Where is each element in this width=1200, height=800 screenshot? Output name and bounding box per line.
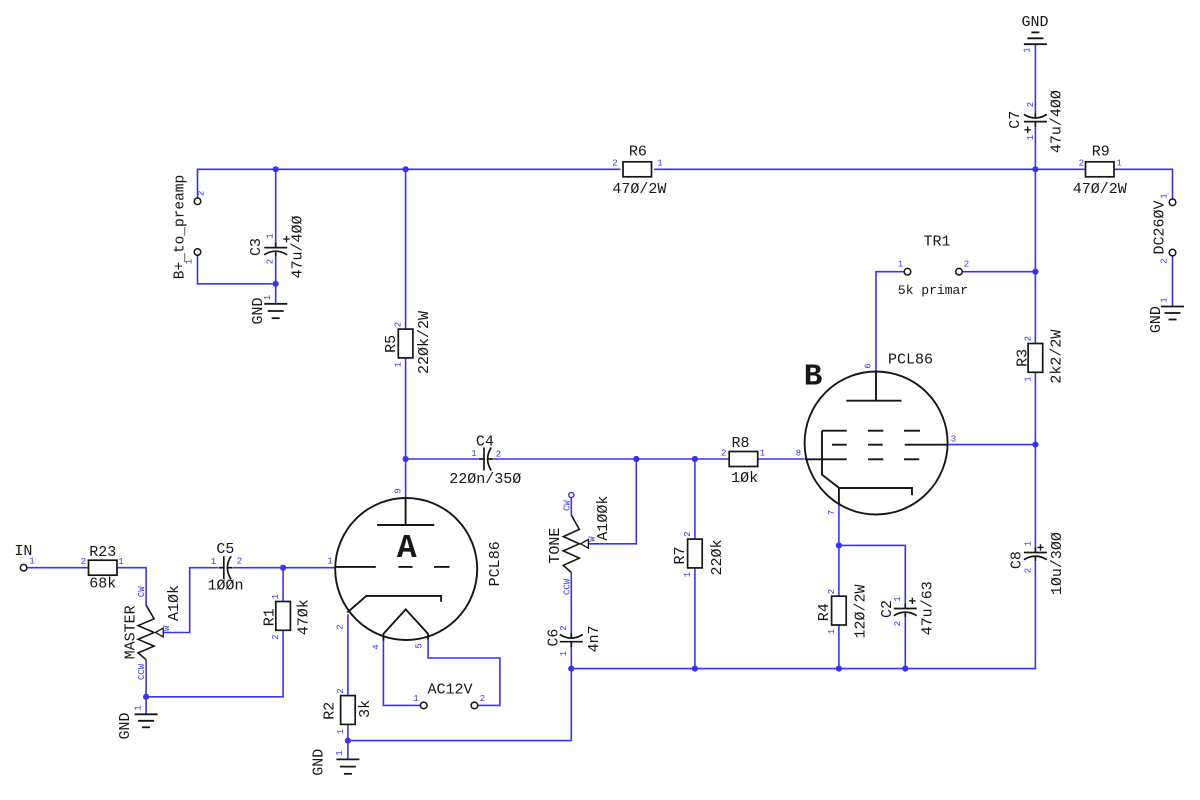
wire GND node down xyxy=(145,697,147,715)
capacitor C6 4n7 xyxy=(560,641,583,643)
svg-text:2: 2 xyxy=(336,688,346,693)
wire GND to C7 xyxy=(1034,44,1036,113)
resistor R7 220k xyxy=(688,539,703,568)
svg-text:1: 1 xyxy=(413,694,418,704)
svg-text:C4: C4 xyxy=(476,434,494,451)
tube B grid 1 control xyxy=(805,458,847,460)
resistor R2 3k xyxy=(341,696,356,725)
tube A plate xyxy=(377,524,434,526)
svg-text:2: 2 xyxy=(81,557,86,567)
svg-text:C8: C8 xyxy=(1009,551,1026,569)
wire TONE wiper to C4 node xyxy=(587,459,636,544)
svg-text:A1Øk: A1Øk xyxy=(166,585,183,621)
capacitor C4 220n/350 xyxy=(483,448,485,471)
capacitor C3 47u/400 polarized xyxy=(264,247,287,249)
svg-text:2: 2 xyxy=(612,159,617,169)
tube A grid xyxy=(335,566,376,568)
junction TONE wiper node xyxy=(633,456,639,462)
svg-text:C7: C7 xyxy=(1007,111,1024,129)
connector B+_to_preamp pin 2 xyxy=(194,198,201,205)
connector B+_to_preamp pin 1 xyxy=(194,249,201,256)
svg-text:2: 2 xyxy=(1023,568,1033,573)
tube A cathode xyxy=(347,596,441,613)
svg-text:4n7: 4n7 xyxy=(586,625,603,652)
svg-text:CW: CW xyxy=(137,586,147,597)
junction R7 R8 node xyxy=(692,456,698,462)
wire DC260V pin2 to GND xyxy=(1172,256,1174,307)
potentiometer MASTER A10k xyxy=(138,605,154,660)
connector IN pin 1 xyxy=(20,564,27,571)
svg-text:2: 2 xyxy=(394,322,404,327)
svg-text:GND: GND xyxy=(250,297,267,324)
wire C8 to bottom bus corner xyxy=(571,561,1035,668)
svg-text:1: 1 xyxy=(336,729,346,734)
svg-text:22Øk: 22Øk xyxy=(709,539,726,575)
svg-text:1: 1 xyxy=(335,750,345,755)
svg-text:TR1: TR1 xyxy=(923,234,950,251)
svg-text:1: 1 xyxy=(1023,541,1033,546)
ground GND under MASTER xyxy=(135,713,158,715)
svg-text:3: 3 xyxy=(951,435,956,445)
svg-text:1: 1 xyxy=(1026,135,1036,140)
svg-text:CCW: CCW xyxy=(563,578,573,595)
svg-text:W: W xyxy=(587,536,597,542)
wire R4 bottom xyxy=(838,625,840,669)
junction R4 bottom bus xyxy=(836,666,842,672)
tube B grid 3 xyxy=(822,430,847,432)
svg-text:DC26ØV: DC26ØV xyxy=(1152,200,1169,254)
wire R1 bottom to MASTER gnd node xyxy=(146,630,283,697)
svg-text:1: 1 xyxy=(1160,297,1170,302)
ground GND under DC260V xyxy=(1161,306,1184,308)
capacitor C2 47u/63 polarized xyxy=(894,608,917,610)
svg-text:W: W xyxy=(162,625,172,631)
resistor R6 470/2W xyxy=(623,162,652,177)
junction C2 bottom bus xyxy=(902,666,908,672)
wire R5 top xyxy=(405,169,407,329)
svg-text:R3: R3 xyxy=(1015,349,1032,367)
svg-text:47Ø/2W: 47Ø/2W xyxy=(612,181,666,198)
svg-text:1Øu/3ØØ: 1Øu/3ØØ xyxy=(1049,532,1066,595)
svg-text:1: 1 xyxy=(263,295,273,300)
transformer TR1 pin 1 xyxy=(904,268,911,275)
junction MASTER gnd node xyxy=(143,694,149,700)
ground GND under C3 xyxy=(264,303,287,305)
svg-text:2: 2 xyxy=(1023,336,1033,341)
wire R2 bottom xyxy=(347,724,349,740)
svg-text:1: 1 xyxy=(683,572,693,577)
svg-text:1: 1 xyxy=(118,557,123,567)
resistor R1 470k xyxy=(276,602,291,631)
svg-text:R2: R2 xyxy=(322,702,339,720)
wire C3 junction to GND xyxy=(275,284,277,304)
svg-text:1: 1 xyxy=(394,362,404,367)
svg-text:1: 1 xyxy=(827,629,837,634)
wire R3 to pin3 node xyxy=(1034,372,1036,444)
junction tube B pin7 node xyxy=(836,542,842,548)
wire TR1 pin2 to bus xyxy=(962,271,1035,273)
wire B+ pin1 to C3 bottom xyxy=(198,255,276,283)
junction C7 top bus xyxy=(1032,166,1038,172)
resistor R8 10k xyxy=(729,452,758,467)
svg-text:R23: R23 xyxy=(89,544,116,561)
wire C4 right to R8 xyxy=(493,458,729,460)
wire C7 to top bus xyxy=(1034,127,1036,170)
junction C3 bottom xyxy=(273,281,279,287)
wire IN to R23 xyxy=(27,567,89,569)
svg-text:AC12V: AC12V xyxy=(427,682,472,699)
svg-text:47u/4ØØ: 47u/4ØØ xyxy=(1049,90,1066,153)
wire C3 top xyxy=(275,169,277,242)
svg-text:GND: GND xyxy=(1021,14,1048,31)
wire top bus left segment xyxy=(198,169,621,198)
svg-text:IN: IN xyxy=(14,543,32,560)
resistor R4 120/2W xyxy=(832,596,847,625)
connector DC260V pin 2 xyxy=(1169,249,1176,256)
svg-text:2: 2 xyxy=(496,450,501,460)
connector DC260V pin 1 xyxy=(1169,199,1176,206)
svg-text:1: 1 xyxy=(559,651,569,656)
junction tube B pin3 bus xyxy=(1032,442,1038,448)
svg-text:2: 2 xyxy=(964,260,969,270)
svg-text:1: 1 xyxy=(271,594,281,599)
svg-text:C5: C5 xyxy=(216,541,234,558)
svg-text:1Øk: 1Øk xyxy=(731,470,758,487)
wire TONE bottom to C6 xyxy=(570,573,572,634)
wire tube A pin5 to AC12V pin2 xyxy=(428,640,500,706)
wire R9 left xyxy=(1035,168,1086,170)
wire tube B pin7 down xyxy=(838,504,840,545)
svg-text:2: 2 xyxy=(271,634,281,639)
resistor R23 68k xyxy=(89,560,118,575)
svg-text:R8: R8 xyxy=(731,435,749,452)
svg-text:2: 2 xyxy=(721,449,726,459)
svg-text:47u/4ØØ: 47u/4ØØ xyxy=(290,215,307,278)
tube B grid 2 screen xyxy=(832,444,847,446)
svg-text:2: 2 xyxy=(1079,159,1084,169)
connector AC12V pin 1 xyxy=(420,702,427,709)
svg-text:R7: R7 xyxy=(672,546,689,564)
svg-text:1: 1 xyxy=(327,557,332,567)
svg-text:2: 2 xyxy=(237,557,242,567)
capacitor C7 47u/400 polarized xyxy=(1024,121,1047,123)
svg-text:2: 2 xyxy=(336,624,346,629)
connector AC12V pin 2 xyxy=(471,702,478,709)
svg-text:R4: R4 xyxy=(816,603,833,621)
svg-text:47Ø/2W: 47Ø/2W xyxy=(1073,181,1127,198)
svg-text:5k primar: 5k primar xyxy=(898,283,968,298)
wire pin3 node to C8 xyxy=(1034,445,1036,548)
svg-text:12Ø/2W: 12Ø/2W xyxy=(853,584,870,638)
wire R7 bottom xyxy=(694,568,696,669)
wire R2 gnd xyxy=(347,741,349,760)
svg-text:PCL86: PCL86 xyxy=(888,352,933,369)
wire R4 top xyxy=(838,545,840,596)
junction TR1 bus xyxy=(1032,269,1038,275)
wire C5 to tube A pin1 xyxy=(233,567,335,569)
svg-text:R5: R5 xyxy=(383,335,400,353)
wire R8 to tube B pin 8 xyxy=(758,458,805,460)
svg-text:68k: 68k xyxy=(89,576,116,593)
svg-text:1: 1 xyxy=(211,557,216,567)
svg-text:GND: GND xyxy=(311,749,328,776)
tube B cathode pin lead xyxy=(838,488,840,504)
junction R2 gnd node xyxy=(345,738,351,744)
wire TONE top xyxy=(570,498,572,516)
svg-text:CCW: CCW xyxy=(137,663,147,680)
svg-text:1: 1 xyxy=(898,260,903,270)
svg-text:8: 8 xyxy=(796,449,801,459)
potentiometer TONE A100k xyxy=(569,492,574,497)
svg-text:22Øk/2W: 22Øk/2W xyxy=(416,311,433,374)
svg-text:R9: R9 xyxy=(1092,144,1110,161)
wire bus C7node to TR1 node to R3 xyxy=(1034,169,1036,343)
svg-text:2: 2 xyxy=(266,259,276,264)
wire R1 top xyxy=(282,568,284,602)
svg-text:1ØØn: 1ØØn xyxy=(207,578,243,595)
svg-text:2: 2 xyxy=(827,589,837,594)
svg-text:R6: R6 xyxy=(629,144,647,161)
wire TR1 pin1 to tube B pin6 xyxy=(876,272,904,372)
svg-text:22Øn/35Ø: 22Øn/35Ø xyxy=(449,471,521,488)
svg-text:1: 1 xyxy=(1023,47,1033,52)
svg-text:1: 1 xyxy=(893,596,903,601)
svg-text:9: 9 xyxy=(393,488,403,493)
svg-text:1: 1 xyxy=(1160,193,1170,198)
svg-text:5: 5 xyxy=(414,643,424,648)
junction C6 bottom bus xyxy=(568,666,574,672)
svg-text:GND: GND xyxy=(1148,306,1165,333)
svg-text:GND: GND xyxy=(117,712,134,739)
svg-text:47u/63: 47u/63 xyxy=(920,581,937,635)
svg-text:2: 2 xyxy=(1160,258,1170,263)
svg-text:4: 4 xyxy=(371,644,381,649)
junction C4 R5 node xyxy=(403,456,409,462)
resistor R5 220k/2W xyxy=(398,329,413,358)
svg-text:MASTER: MASTER xyxy=(123,605,140,659)
svg-text:1: 1 xyxy=(471,449,476,459)
svg-text:1: 1 xyxy=(657,159,662,169)
svg-text:A1ØØk: A1ØØk xyxy=(595,496,612,541)
svg-text:PCL86: PCL86 xyxy=(487,541,504,586)
wire MASTER wiper to C5 xyxy=(162,568,218,633)
resistor R9 470/2W xyxy=(1086,162,1115,177)
wire R5 bottom to C4 node xyxy=(405,358,407,459)
wire C2 bottom xyxy=(904,617,906,668)
tube B cathode xyxy=(822,431,912,496)
svg-text:B+_to_preamp: B+_to_preamp xyxy=(173,175,189,279)
svg-text:2: 2 xyxy=(559,625,569,630)
wire tube B pin3 xyxy=(948,444,1036,446)
svg-text:TONE: TONE xyxy=(547,528,564,564)
svg-text:6: 6 xyxy=(864,363,874,368)
wire C6 bottom to bus xyxy=(570,647,572,669)
capacitor C8 10u/300 polarized xyxy=(1024,552,1047,554)
svg-text:2: 2 xyxy=(197,191,207,196)
svg-text:1: 1 xyxy=(1023,376,1033,381)
wire tube A pin2 to R2 xyxy=(347,614,349,695)
junction R5 top bus xyxy=(403,166,409,172)
tube A PCL86 triode envelope xyxy=(335,498,477,640)
svg-text:1: 1 xyxy=(266,233,276,238)
svg-text:2: 2 xyxy=(893,621,903,626)
junction R7 bottom bus xyxy=(692,666,698,672)
wire R7 top xyxy=(694,459,696,539)
svg-text:2: 2 xyxy=(1026,102,1036,107)
svg-text:7: 7 xyxy=(827,510,837,515)
svg-text:C3: C3 xyxy=(248,238,265,256)
wire R23 to MASTER cw xyxy=(117,568,146,606)
ground GND top right xyxy=(1024,43,1047,45)
wire tube A pin4 to AC12V pin1 xyxy=(383,641,420,706)
wire tube A pin 9 xyxy=(405,459,407,499)
junction C3 top bus xyxy=(273,166,279,172)
tube B PCL86 pentode envelope xyxy=(805,372,948,515)
wire bottom bus to R2 node xyxy=(348,669,571,741)
svg-text:1: 1 xyxy=(134,705,144,710)
svg-text:2: 2 xyxy=(480,694,485,704)
wire top bus right segment xyxy=(654,168,1035,170)
wire C3 bottom to junction xyxy=(275,256,277,284)
svg-text:1: 1 xyxy=(1116,159,1121,169)
svg-text:2: 2 xyxy=(683,531,693,536)
tube A heater xyxy=(383,609,428,641)
svg-text:47Øk: 47Øk xyxy=(296,599,313,635)
svg-text:B: B xyxy=(804,360,823,395)
transformer TR1 pin 2 xyxy=(956,268,963,275)
ground GND under R2 xyxy=(336,758,359,760)
tube B plate xyxy=(846,400,901,402)
resistor R3 2k2/2W xyxy=(1028,344,1043,373)
wire C4 left xyxy=(406,458,479,460)
svg-text:2k2/2W: 2k2/2W xyxy=(1049,330,1066,384)
svg-text:3k: 3k xyxy=(357,700,374,718)
wire MASTER bottom to GND node xyxy=(145,660,147,697)
svg-text:R1: R1 xyxy=(262,608,279,626)
svg-text:CW: CW xyxy=(563,500,573,511)
wire pin7 node to C2 xyxy=(839,545,905,603)
svg-text:1: 1 xyxy=(760,449,765,459)
wire R9 to DC260V xyxy=(1113,169,1172,199)
junction tube A pin1 node xyxy=(280,565,286,571)
svg-text:A: A xyxy=(397,530,417,567)
capacitor C5 100n xyxy=(223,556,225,579)
